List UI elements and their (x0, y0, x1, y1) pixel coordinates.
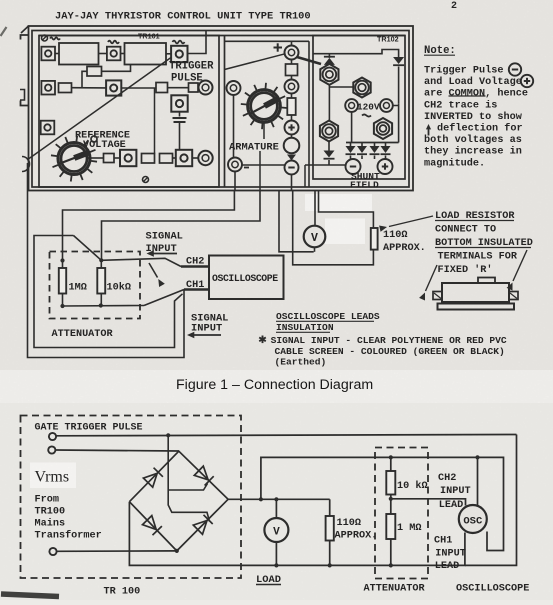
hex stud S4 (374, 118, 392, 139)
wire T7 to ring (192, 157, 198, 159)
bridge diode lower-right (193, 515, 212, 535)
label 10k (107, 282, 131, 294)
wire component to connector (168, 87, 189, 89)
node voltmeter bottom (274, 563, 278, 567)
wire ring to resistor (291, 94, 293, 99)
knob REFERENCE VOLTAGE (51, 136, 97, 182)
terminal T3 (41, 81, 55, 95)
ring connector mid column (285, 80, 299, 94)
label OSCILLOSCOPE LEADS INSULATION (276, 311, 380, 333)
label TR101 (138, 32, 160, 41)
diode D6 (370, 143, 380, 160)
wire relay2 to trigger terminal (166, 53, 171, 55)
wire to load resistor top (319, 191, 374, 229)
wire circled-minus to panel bottom (291, 175, 293, 191)
label SIGNAL INPUT upper (146, 231, 183, 256)
wire armature to panel bottom (259, 151, 261, 191)
wire CH1 lead diagonal (144, 290, 184, 306)
resistor 10k fig1 (97, 260, 105, 305)
module box TR101 (39, 36, 219, 188)
terminal ac bottom (49, 548, 56, 555)
hex stud S2 middle (353, 78, 370, 98)
diode D1 top right (393, 57, 404, 104)
terminal T2 (107, 47, 121, 61)
label Vrms (35, 469, 70, 486)
terminal PLUS (285, 41, 299, 59)
TR100 dashed box (21, 416, 242, 579)
wire TR102 top rail (313, 50, 399, 58)
note heading (424, 45, 456, 57)
ring 120V left (345, 99, 358, 112)
wire CH2 lead (101, 258, 181, 266)
fuse holder square (286, 64, 298, 76)
ring connector row2 (199, 81, 213, 95)
terminal T4 (106, 80, 121, 95)
load resistor drawing (433, 278, 518, 310)
component box row3 a (104, 154, 115, 163)
wire stud1 to stud mid (329, 86, 352, 88)
wire gate trigger pulse (56, 435, 516, 436)
label 110 ohm approx (383, 230, 426, 254)
wire gate tap into bridge (168, 435, 209, 521)
wire stud1 to stud2 (328, 85, 330, 121)
wire relay1 to T2 (99, 53, 107, 55)
bridge rectifier diamond (129, 451, 228, 551)
relay box 1 (59, 43, 99, 65)
bridge diode upper-left (143, 468, 163, 488)
wire trigger terminal to top rail (188, 31, 207, 54)
component box row3 b (142, 154, 155, 164)
wire to lamp (291, 135, 293, 138)
terminal ac top (48, 446, 55, 453)
wire CH1 into oscilloscope (184, 288, 209, 291)
wire T1 to relay box (55, 53, 59, 55)
diode D3 below stud3 (324, 142, 335, 166)
terminal minus armature (228, 158, 249, 172)
arrow signal input lower (187, 332, 221, 339)
wire attenuator bottom link (63, 305, 145, 308)
voltmeter V fig2 (264, 499, 288, 565)
wire shunt bottom link (305, 165, 345, 187)
label CH1 INPUT LEAD (434, 536, 466, 573)
capacitor C1 (173, 112, 187, 150)
component box row3 c (160, 154, 173, 164)
wire T2 to relay box 2 (121, 53, 125, 55)
wire knob to component (88, 157, 104, 159)
bridge diode upper-right (194, 466, 213, 485)
arrow signal input upper left (147, 250, 178, 257)
circled-plus symbol in note (521, 75, 533, 87)
node mid attenuator (389, 497, 393, 501)
terminal T6 (120, 150, 136, 166)
arrow signal input upper diagonal (149, 263, 165, 287)
wire ring down to minus terminal (233, 95, 235, 157)
diode D4 (346, 143, 356, 160)
ring 120V right (380, 99, 399, 112)
label CH1 fig1 (186, 280, 204, 291)
wire armature lead 1 (to 1M attenuator) (63, 191, 235, 261)
arrow callout to right terminal (507, 250, 527, 291)
wire bridge output positive (228, 498, 330, 500)
wire panel to voltmeter (314, 191, 316, 226)
knob ARMATURE (241, 83, 287, 129)
trigger lead outside panel (28, 163, 185, 358)
label TR102 (377, 35, 399, 44)
component box row2 left (59, 83, 72, 93)
label OSCILLOSCOPE fig2 (456, 584, 529, 595)
node 10k top (99, 258, 103, 262)
white-out patch lower (325, 219, 365, 245)
label SIGNAL INPUT lower (191, 313, 228, 335)
plus sign marking (274, 43, 283, 51)
terminal T1 (41, 47, 55, 61)
signal lead diagonal to trigger terminal (27, 58, 171, 161)
module box TR102 (313, 36, 405, 180)
terminal gate (49, 433, 56, 440)
label CH2 INPUT LEAD (438, 473, 471, 511)
wire right rail down (398, 104, 400, 143)
white-out patch upper (305, 194, 372, 211)
oscilloscope circle OSC (459, 505, 487, 533)
terminal circled-plus (285, 121, 299, 135)
scan smudge bottom left (1, 594, 59, 597)
ring connector row3 (198, 151, 212, 165)
hex stud S1 (320, 64, 338, 85)
terminal circled-minus mid (285, 161, 299, 175)
wire loop-out arc at panel left edge (22, 157, 30, 172)
relay box 2 (125, 43, 167, 65)
hex stud S3 (320, 121, 338, 142)
terminal shunt plus (378, 159, 393, 174)
white patch Vrms (30, 463, 76, 489)
node 1M bottom (60, 304, 64, 308)
wire gate loop right side (465, 435, 517, 566)
wire to T7 (173, 157, 176, 159)
oscilloscope box fig1 (209, 256, 284, 300)
terminal TRIGGER PULSE (171, 46, 187, 62)
label TR 100 (104, 587, 141, 598)
label 120V (357, 102, 380, 117)
label LOAD RESISTOR callout (435, 211, 533, 276)
diode D7 (381, 143, 391, 160)
wire bottom rail (129, 502, 465, 566)
terminal T5 below trigger (171, 95, 187, 111)
arrow callout to left terminal (419, 265, 437, 301)
component box row2 right (156, 83, 168, 93)
wire armature lead 2 (to 10k attenuator) (102, 191, 261, 261)
label REFERENCE VOLTAGE (75, 131, 130, 152)
label 1M (69, 283, 87, 294)
terminal T8 left of knob (41, 121, 55, 135)
node 1M top (60, 258, 64, 262)
wire plus to fuse (291, 60, 293, 65)
wire between armature terminals (242, 164, 285, 166)
left mounting bracket (20, 35, 29, 106)
resistor mid column (287, 98, 295, 115)
attenuator dashed box fig2 (375, 448, 428, 579)
arrow callout to 110 ohm resistor (379, 216, 433, 232)
middle section right edge (308, 41, 310, 187)
signal lead diagonal to + terminal (225, 54, 286, 70)
cable enclosure diagonal to 10k junction (74, 236, 102, 261)
note body text (424, 65, 528, 170)
attenuator dashed box fig1 (50, 252, 141, 319)
middle section top edge (225, 40, 310, 42)
wire CH2 riser (261, 457, 504, 550)
cable from plus terminal to TR102 (297, 57, 321, 64)
pulse squiggle above T2 (108, 41, 119, 44)
wire row2 to T4 (72, 87, 107, 89)
label CH2 fig1 (186, 257, 204, 268)
wire fuse to ring (291, 76, 293, 80)
resistor 1M fig1 (59, 261, 66, 307)
ring connector left of armature knob (227, 81, 241, 95)
wire armature knob stub (263, 121, 265, 139)
wire T4 to component (121, 87, 156, 89)
wire CH2 into oscilloscope (181, 265, 209, 268)
load resistor 110 ohm (371, 228, 378, 250)
wire row2 down to row3 (154, 88, 156, 154)
wire CH2 lead fig2 (391, 499, 466, 506)
bridge diode lower-left (143, 516, 162, 536)
wire resistor to circled-plus (291, 115, 293, 121)
label ATTENUATOR fig2 (364, 584, 426, 595)
wire ac bottom to bridge (57, 550, 177, 552)
panel outer frame (21, 26, 413, 191)
node 10k bottom (99, 303, 103, 307)
label LOAD underlined (256, 574, 281, 586)
diode D5 (357, 143, 367, 160)
label ARMATURE (229, 142, 279, 154)
node attenuator bottom (389, 563, 393, 567)
diode D2 above stud1 (324, 54, 335, 65)
component box between rows (87, 67, 102, 77)
diode pointer below lamp (287, 155, 296, 161)
panel top plate line (39, 35, 405, 37)
wire load bottom loop (293, 191, 374, 265)
resistor 1M fig2 (386, 499, 395, 566)
label 110 ohm fig2 (335, 518, 378, 542)
screw head top-left (42, 35, 61, 41)
resistor 10k fig2 (386, 457, 395, 498)
page number (451, 1, 457, 12)
wire voltmeter bottom link (279, 191, 314, 252)
leads insulation text (259, 335, 507, 368)
wire to T6 (114, 157, 120, 159)
wire osc trigger lead (477, 457, 479, 505)
terminal T7 (176, 150, 192, 166)
wire subrow right leg (102, 65, 131, 72)
label From TR100 Mains Transformer (35, 495, 102, 542)
label ATTENUATOR fig1 (52, 329, 114, 340)
wire ac top to bridge (56, 450, 179, 451)
label SHUNT FIELD (350, 171, 380, 191)
voltmeter V (304, 226, 326, 248)
label 1 MOhm fig2 (397, 523, 421, 534)
node osc trigger tap (475, 455, 479, 459)
divider middle section left edge (224, 36, 226, 188)
circled-minus symbol in note (509, 63, 521, 75)
label OSCILLOSCOPE fig1 (212, 273, 278, 284)
page corner artifact (1, 27, 7, 36)
screw left of reference label (91, 136, 97, 142)
node 10k top fig2 (389, 455, 393, 459)
title JAY-JAY THYRISTOR CONTROL UNIT TYPE TR100 (55, 11, 311, 23)
label TRIGGER PULSE (169, 61, 214, 85)
label 10 kOhm fig2 (397, 480, 428, 492)
load resistor 110 ohm fig2 (326, 499, 334, 565)
wire subrow left leg (82, 71, 87, 87)
node load bottom (328, 563, 332, 567)
pulse squiggle above trigger terminal (173, 41, 185, 44)
wire minus terminal to panel bottom (234, 172, 236, 191)
wire 120V left ring down to bus (351, 112, 353, 143)
node voltmeter top (274, 497, 278, 501)
connector stub row2 (189, 83, 199, 92)
label GATE TRIGGER PULSE (35, 423, 143, 434)
screw bottom TR101 (143, 177, 149, 183)
node gate tap (166, 433, 170, 437)
terminal shunt minus (346, 159, 361, 174)
lamp circle (284, 138, 300, 154)
diode bus bar (346, 142, 399, 144)
node CH2 branch (259, 497, 263, 501)
caption Figure 1 (176, 377, 373, 393)
cable enclosure outline (34, 236, 183, 348)
node bridge bottom (175, 549, 179, 553)
voltmeter bottom stub (314, 247, 316, 252)
